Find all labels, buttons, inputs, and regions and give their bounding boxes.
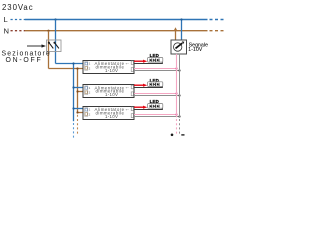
wire dim+ pink row1 (134, 68, 177, 70)
terminal L (pin 1) (85, 108, 87, 111)
wire L dashed lead-in (11, 19, 26, 21)
node L dimmer junction (180, 18, 182, 20)
terminal L (pin 1) (85, 62, 87, 65)
dim control terminal block (131, 68, 133, 72)
svg-text:N: N (4, 27, 9, 36)
wire L stub row2 (74, 87, 87, 89)
wire N drop to switch (48, 31, 50, 69)
LED diode D3 (157, 59, 159, 62)
svg-text:ON-OFF: ON-OFF (6, 57, 43, 64)
LED diode D3 (157, 105, 159, 108)
wire LED- black row2 (134, 87, 163, 89)
wire dim- bus dashed continuation (179, 119, 181, 136)
driver U1 body (83, 61, 134, 74)
input terminal block (85, 108, 88, 117)
LED module row3 (148, 104, 163, 109)
driver U3 (83, 107, 134, 120)
svg-text:L: L (4, 15, 8, 24)
continuation dot (171, 134, 174, 137)
wire dim+ pink row3 (134, 114, 177, 116)
output terminal block LED (131, 107, 133, 111)
LED diode D2 (153, 83, 155, 86)
wire dim- gray row2 (134, 95, 180, 97)
node N dimmer tap arrow (174, 27, 177, 30)
disconnector box S1 (47, 40, 62, 52)
dim control terminal block (131, 92, 133, 96)
switch contact 1 (48, 42, 50, 44)
svg-text:1-10V: 1-10V (105, 68, 118, 73)
wire L main (25, 19, 208, 21)
switch contact 2 (53, 42, 55, 44)
wire dim- gray row3 (134, 116, 180, 118)
node N bus row2 (76, 90, 78, 92)
node dim- row1 (178, 69, 180, 71)
wire N dashed continuation (210, 30, 224, 32)
wire LED+ red row3 (134, 106, 144, 108)
wire L stub row3 (74, 108, 87, 110)
wire L dashed continuation (210, 19, 224, 21)
LED module row1 (148, 58, 163, 63)
dimmer body (171, 40, 187, 54)
wire dim+ pink row2 (134, 93, 177, 95)
wire L drop to switch (55, 20, 57, 64)
node N bus row3 (76, 111, 78, 113)
terminal N (pin 2) (85, 113, 87, 116)
dim control terminal block (131, 114, 133, 118)
wire L drop to dimmer (181, 20, 183, 41)
svg-text:+–: +– (126, 107, 130, 111)
terminal L (pin 1) (85, 87, 87, 90)
svg-text:1-10V: 1-10V (105, 114, 118, 119)
wire N drop to dimmer (175, 31, 177, 40)
LED module enclosure (148, 104, 163, 109)
input terminal block (85, 62, 88, 71)
svg-text:LED: LED (150, 78, 159, 83)
driver U1 (83, 61, 134, 74)
wire L bus dashed continuation (73, 123, 75, 139)
wire L bus vertical (73, 64, 75, 122)
svg-text:230Vac: 230Vac (2, 3, 34, 12)
input terminal block (85, 86, 88, 95)
wire dim- bus vertical (179, 54, 181, 117)
node dim+ row2 (175, 92, 177, 94)
LED diode D2 (153, 59, 155, 62)
node L bus row1 (72, 62, 74, 64)
LED diode D1 (150, 105, 152, 108)
LED module enclosure (148, 58, 163, 63)
node dim+ row3 (175, 113, 177, 115)
wire dim- gray row1 (134, 70, 180, 72)
wire LED+ red row1 (134, 60, 144, 62)
LED diode D1 (150, 59, 152, 62)
driver U2 body (83, 85, 134, 98)
LED diode D2 (153, 105, 155, 108)
wire LED- black row1 (134, 63, 163, 65)
terminal N (pin 2) (85, 67, 87, 70)
wire N bus dashed continuation (77, 115, 79, 135)
wire LED- black row3 (134, 109, 163, 111)
svg-text:+–: +– (126, 61, 130, 65)
svg-text:1-10V: 1-10V (105, 92, 118, 97)
node dim+ row1 (175, 67, 177, 69)
output terminal block LED (131, 85, 133, 89)
svg-text:1-10V: 1-10V (188, 47, 203, 53)
node dim- row3 (178, 115, 180, 117)
LED diode D1 (150, 83, 152, 86)
driver U3 body (83, 107, 134, 120)
wire LED+ red row2 (134, 84, 144, 86)
node N bus row1 (76, 67, 78, 69)
arrow to disconnector (27, 45, 42, 47)
switch blade 2 (54, 42, 59, 48)
node dim- row2 (178, 94, 180, 96)
wire N stub row3 (78, 112, 87, 114)
node L-switch junction (54, 18, 56, 20)
LED module enclosure (148, 82, 163, 87)
wire N stub row2 (78, 91, 87, 93)
driver U2 (83, 85, 134, 98)
node L bus row3 (72, 107, 74, 109)
dimmer box (Segnale 1-10V) (171, 40, 187, 54)
wire N dashed lead-in (11, 30, 26, 32)
LED diode D3 (157, 83, 159, 86)
LED module row2 (148, 82, 163, 87)
wire dim+ bus vertical (176, 54, 178, 117)
wire dim+ bus dashed continuation (176, 119, 178, 136)
output terminal block LED (131, 61, 133, 65)
switch blade 1 (49, 42, 54, 48)
continuation dash (181, 134, 184, 136)
wire N bus vertical (77, 69, 79, 113)
svg-text:+–: +– (126, 86, 130, 90)
wire N stub row1 (49, 68, 87, 70)
node L bus row2 (72, 86, 74, 88)
wire L stub row1 (56, 63, 87, 65)
node N-switch junction (47, 30, 49, 32)
wire N main (25, 30, 208, 32)
potentiometer knob (174, 43, 182, 51)
terminal N (pin 2) (85, 91, 87, 94)
